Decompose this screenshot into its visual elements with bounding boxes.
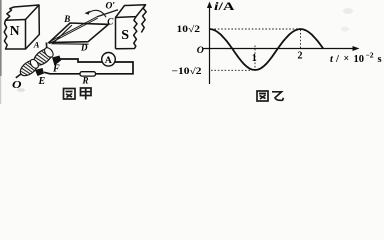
svg-text:1: 1 [252, 53, 257, 64]
svg-text:F: F [52, 63, 60, 74]
dashed vertical at t=1 [254, 46, 256, 71]
svg-text:A: A [105, 55, 112, 66]
magnet N (pole piece, broken-off wavy left edge) [4, 5, 39, 49]
svg-text:/: / [335, 54, 340, 65]
magnet S (broken-off wavy right edge) [116, 5, 147, 49]
svg-text:D: D [80, 43, 88, 53]
slip ring 2 (lower) [18, 57, 41, 78]
resistor R [80, 72, 96, 76]
dashed level +10root2 [211, 28, 300, 30]
rotation axis O'-O [16, 10, 118, 78]
scan edge streak [0, 0, 2, 76]
i axis (vertical) [209, 4, 211, 84]
svg-text:s: s [378, 54, 382, 65]
wire ammeter to right side down [96, 62, 134, 74]
svg-text:×: × [344, 54, 350, 65]
brush F (upper, black) [52, 56, 61, 66]
slip ring 1 (upper) [31, 46, 55, 69]
svg-text:10√2: 10√2 [177, 24, 201, 34]
svg-text:10: 10 [354, 54, 365, 65]
wire from resistor to brush E [44, 72, 80, 74]
svg-text:S: S [121, 28, 129, 43]
svg-text:−10√2: −10√2 [172, 66, 203, 76]
dashed vertical at t=2 [300, 30, 302, 49]
ammeter U1 [102, 53, 116, 67]
caption 图乙 (drawn glyphs) [257, 91, 268, 101]
current curve i(t) [210, 29, 324, 70]
rotation direction arrow [86, 10, 107, 17]
svg-text:t: t [330, 54, 334, 65]
dashed level -10root2 [211, 69, 251, 71]
wire from brush F to ammeter [58, 59, 103, 62]
svg-text:i/A: i/A [214, 0, 235, 13]
svg-text:B: B [63, 14, 70, 24]
svg-text:A: A [33, 39, 40, 49]
caption 图甲 (drawn glyphs) [64, 89, 76, 100]
svg-text:−2: −2 [366, 51, 374, 60]
svg-text:O: O [197, 45, 204, 56]
svg-text:R: R [82, 76, 89, 86]
svg-text:E: E [38, 76, 46, 87]
svg-text:O′: O′ [106, 2, 116, 12]
brush E (lower, black) [35, 68, 44, 76]
svg-text:N: N [10, 23, 20, 38]
rotating coil ABCD [49, 23, 109, 44]
svg-text:2: 2 [298, 51, 303, 62]
svg-text:C: C [107, 16, 114, 26]
svg-text:O: O [12, 79, 22, 91]
t axis (horizontal) [204, 48, 357, 50]
